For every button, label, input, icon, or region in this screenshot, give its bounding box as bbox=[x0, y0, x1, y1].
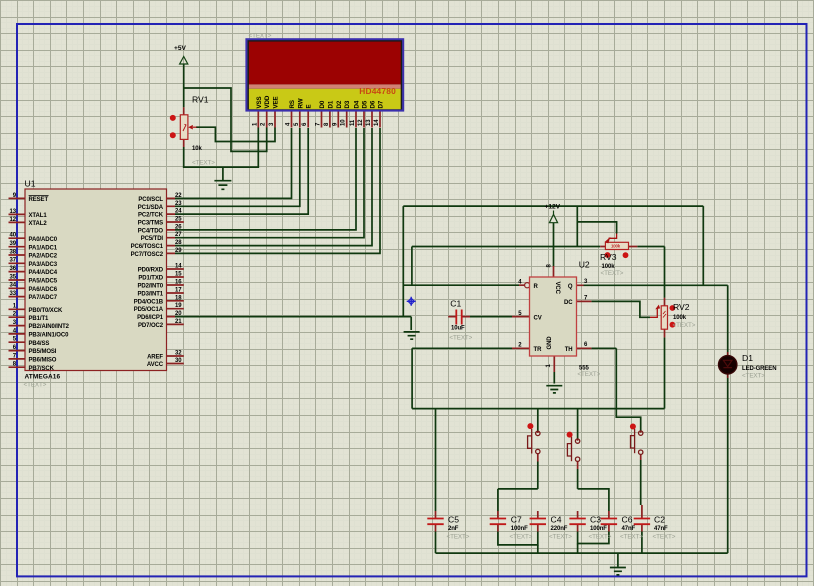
ground 555 bbox=[546, 386, 562, 393]
svg-text:TR: TR bbox=[534, 347, 543, 353]
wire C7 lead down bbox=[497, 489, 499, 511]
svg-text:PB1/T1: PB1/T1 bbox=[29, 316, 50, 322]
svg-text:D6: D6 bbox=[370, 100, 377, 108]
svg-text:<TEXT>: <TEXT> bbox=[589, 534, 612, 541]
U1 left pin names bbox=[29, 196, 70, 372]
svg-text:RS: RS bbox=[289, 100, 296, 108]
cap C6 leads bbox=[608, 511, 610, 532]
U1 right pin stubs wired bbox=[167, 198, 176, 316]
svg-text:PB4/SS: PB4/SS bbox=[29, 341, 50, 347]
svg-text:15: 15 bbox=[175, 272, 182, 278]
cap C3 leads bbox=[577, 511, 579, 532]
capacitor C6 bbox=[601, 515, 644, 541]
ground mid under C1 node bbox=[404, 332, 420, 339]
wire rail drop to button2 bbox=[577, 409, 579, 439]
svg-text:RV3: RV3 bbox=[600, 252, 617, 262]
wire rail drop to RV3 wiper dogleg bbox=[576, 206, 578, 246]
wire C7 C4 parallel top bbox=[498, 488, 538, 490]
svg-text:PD6/ICP1: PD6/ICP1 bbox=[137, 315, 164, 321]
ground near RV1 bbox=[214, 181, 231, 190]
wire bottom rail bbox=[436, 552, 728, 554]
LCD display LM016L HD44780 bbox=[246, 32, 403, 110]
wire C3 C6 parallel bottom bbox=[578, 532, 609, 544]
svg-text:38: 38 bbox=[10, 249, 17, 255]
svg-text:CV: CV bbox=[534, 315, 542, 321]
wire riser R row to RV3 row bbox=[411, 247, 413, 286]
svg-text:GND: GND bbox=[547, 336, 553, 350]
svg-text:100nF: 100nF bbox=[590, 526, 607, 532]
U1 right pin stubs bare bbox=[167, 222, 184, 364]
555 pin stubs bbox=[512, 266, 591, 372]
svg-text:47nF: 47nF bbox=[622, 526, 636, 532]
svg-text:PD3/INT1: PD3/INT1 bbox=[137, 292, 163, 298]
svg-text:PC2/TCK: PC2/TCK bbox=[138, 213, 164, 219]
svg-text:ATMEGA16: ATMEGA16 bbox=[25, 373, 61, 380]
wire RV1 bottom to ground and LCD VSS bbox=[184, 128, 259, 168]
svg-text:39: 39 bbox=[10, 241, 17, 247]
svg-text:47nF: 47nF bbox=[654, 526, 668, 532]
svg-text:PD5/OC1A: PD5/OC1A bbox=[134, 307, 164, 313]
svg-text:U1: U1 bbox=[25, 179, 36, 189]
svg-text:19: 19 bbox=[175, 303, 182, 309]
svg-text:PB0/T0/XCK: PB0/T0/XCK bbox=[29, 308, 63, 314]
svg-text:TH: TH bbox=[565, 347, 573, 353]
svg-text:LED-GREEN: LED-GREEN bbox=[742, 366, 776, 372]
svg-text:PD0/RXD: PD0/RXD bbox=[138, 268, 164, 274]
button 1 bbox=[527, 423, 540, 454]
wire C4 drop to bottom rail bbox=[537, 545, 539, 553]
svg-text:PB5/MOSI: PB5/MOSI bbox=[29, 349, 57, 355]
C1 leads bbox=[448, 316, 470, 318]
svg-text:PA6/ADC6: PA6/ADC6 bbox=[29, 287, 58, 293]
svg-text:PC3/TMS: PC3/TMS bbox=[138, 221, 163, 227]
wire PC0 to LCD RS bbox=[175, 128, 292, 198]
svg-text:10: 10 bbox=[341, 119, 347, 126]
svg-text:<TEXT>: <TEXT> bbox=[653, 534, 676, 541]
svg-text:21: 21 bbox=[175, 319, 182, 325]
LED D1 green bbox=[719, 352, 777, 380]
svg-text:PD1/TXD: PD1/TXD bbox=[138, 276, 163, 282]
power +12V bbox=[545, 204, 561, 223]
svg-text:C5: C5 bbox=[448, 515, 459, 525]
button 2 bbox=[567, 432, 580, 462]
svg-text:PC7/TOSC2: PC7/TOSC2 bbox=[131, 252, 164, 258]
wire R row vertical branch bbox=[402, 206, 404, 317]
wire button2 to C3 C6 top rail bbox=[577, 469, 579, 489]
svg-text:<TEXT>: <TEXT> bbox=[549, 534, 572, 541]
resistor RV1 pot bbox=[170, 95, 215, 167]
wire ground stub near RV1 bbox=[222, 167, 224, 180]
svg-text:C6: C6 bbox=[622, 515, 633, 525]
svg-text:2nF: 2nF bbox=[448, 526, 459, 532]
resistor RV3 pot bbox=[600, 234, 629, 278]
wire C3 C6 parallel top bbox=[578, 489, 609, 511]
cap C2 leads bbox=[641, 505, 643, 532]
RV1 top lead bbox=[183, 107, 185, 115]
cap C5 leads bbox=[435, 511, 437, 532]
wire R row horizontal bbox=[403, 284, 519, 286]
svg-text:XTAL2: XTAL2 bbox=[29, 221, 48, 227]
ground bottom bbox=[610, 568, 626, 575]
svg-text:<TEXT>: <TEXT> bbox=[601, 270, 624, 277]
wire PC6 to LCD D6 bbox=[175, 128, 372, 246]
U1 left pin stubs bbox=[9, 198, 26, 367]
svg-text:24: 24 bbox=[175, 209, 182, 215]
wire +5V branch to LCD VDD bbox=[184, 88, 267, 151]
svg-text:AREF: AREF bbox=[147, 355, 163, 361]
svg-text:34: 34 bbox=[10, 283, 17, 289]
svg-text:+12V: +12V bbox=[545, 204, 561, 211]
svg-text:D1: D1 bbox=[742, 353, 753, 363]
svg-text:<TEXT>: <TEXT> bbox=[447, 534, 470, 541]
svg-text:40: 40 bbox=[10, 233, 17, 239]
wire C1 node to CV green part bbox=[470, 316, 512, 318]
svg-text:D0: D0 bbox=[319, 100, 326, 108]
svg-text:PD4/OC1B: PD4/OC1B bbox=[134, 299, 164, 305]
svg-text:14: 14 bbox=[175, 264, 182, 270]
555 reset bubble bbox=[525, 283, 530, 288]
wire C3 drop to bottom rail bbox=[577, 544, 579, 554]
LCD pin stubs bbox=[258, 110, 380, 127]
wire RV3 row bbox=[412, 246, 600, 248]
wire C2 bottom lead green bbox=[641, 532, 643, 554]
svg-text:PC6/TOSC1: PC6/TOSC1 bbox=[131, 244, 164, 250]
svg-text:C1: C1 bbox=[450, 299, 461, 309]
svg-text:C2: C2 bbox=[654, 515, 665, 525]
svg-text:29: 29 bbox=[175, 248, 182, 254]
svg-text:PD2/INT0: PD2/INT0 bbox=[137, 284, 163, 290]
svg-text:HD44780: HD44780 bbox=[359, 86, 396, 96]
wire rail drop to Q row bbox=[702, 206, 704, 285]
capacitor C1 bbox=[449, 299, 472, 342]
wire PC2 to LCD E bbox=[175, 128, 308, 214]
svg-text:11: 11 bbox=[350, 119, 356, 126]
wire rail drop to button3 bbox=[616, 409, 640, 431]
svg-text:<TEXT>: <TEXT> bbox=[577, 371, 600, 378]
svg-text:30: 30 bbox=[175, 358, 182, 364]
RV1 bottom lead bbox=[183, 139, 185, 147]
power +5V bbox=[174, 45, 188, 64]
svg-text:D3: D3 bbox=[344, 100, 351, 108]
wire LED vertical bbox=[727, 285, 729, 553]
button1 leads bbox=[537, 431, 539, 461]
svg-text:C4: C4 bbox=[551, 515, 562, 525]
svg-text:14: 14 bbox=[374, 119, 380, 126]
wire +5V to RV1 top bbox=[183, 64, 185, 107]
svg-text:D7: D7 bbox=[378, 100, 385, 108]
svg-text:10uF: 10uF bbox=[451, 326, 465, 332]
wire button3 to C2 bbox=[640, 460, 642, 505]
wire 555 gnd stub bbox=[553, 372, 555, 384]
svg-text:35: 35 bbox=[10, 274, 17, 280]
LCD pin numbers bbox=[252, 119, 380, 126]
svg-text:+5V: +5V bbox=[174, 45, 187, 52]
RV3 leads bbox=[600, 246, 637, 248]
capacitor C5 bbox=[427, 515, 469, 541]
capacitor C3 bbox=[569, 515, 611, 541]
op-amp U2 555 timer body bbox=[530, 260, 601, 378]
U2 pin numbers bbox=[518, 264, 588, 368]
svg-text:PC5/TDI: PC5/TDI bbox=[141, 236, 164, 242]
U1 left pin numbers bbox=[10, 193, 17, 368]
svg-text:<TEXT>: <TEXT> bbox=[192, 160, 215, 167]
wire button1 to C4 C7 top rail bbox=[537, 462, 539, 489]
svg-text:PC1/SDA: PC1/SDA bbox=[138, 205, 164, 211]
svg-text:AVCC: AVCC bbox=[147, 362, 164, 368]
svg-text:C7: C7 bbox=[511, 515, 522, 525]
svg-text:PB2/AIN0/INT2: PB2/AIN0/INT2 bbox=[29, 324, 70, 330]
svg-text:RV2: RV2 bbox=[673, 302, 690, 312]
node origin marker bbox=[407, 297, 416, 306]
capacitor C7 bbox=[490, 515, 533, 541]
svg-text:27: 27 bbox=[175, 232, 182, 238]
wire Q row to LED bbox=[584, 284, 728, 286]
svg-text:DC: DC bbox=[564, 300, 573, 306]
RV2 leads bbox=[664, 298, 666, 338]
wire C5 bottom lead green bbox=[435, 532, 437, 554]
svg-text:RESET: RESET bbox=[29, 197, 49, 203]
svg-text:10k: 10k bbox=[192, 146, 202, 152]
wire TR drop to bottom rail bbox=[411, 348, 413, 408]
svg-text:PB6/MISO: PB6/MISO bbox=[29, 358, 57, 364]
svg-text:12: 12 bbox=[10, 217, 17, 223]
button 3 bbox=[630, 424, 643, 455]
svg-text:100k: 100k bbox=[673, 315, 687, 321]
wire +12V arrow to 555 VCC bbox=[553, 223, 555, 266]
svg-text:D4: D4 bbox=[354, 100, 361, 108]
wire PC4 to LCD D4 bbox=[175, 128, 356, 230]
svg-text:26: 26 bbox=[175, 224, 182, 230]
svg-text:17: 17 bbox=[175, 288, 182, 294]
svg-text:22: 22 bbox=[175, 193, 182, 199]
svg-text:VEE: VEE bbox=[273, 96, 280, 108]
svg-text:VSS: VSS bbox=[256, 96, 263, 108]
cap C7 leads bbox=[497, 511, 499, 532]
svg-text:100nF: 100nF bbox=[511, 526, 528, 532]
U2 pin names bbox=[534, 282, 574, 354]
svg-text:C3: C3 bbox=[590, 515, 601, 525]
wire TH drop to rail bbox=[615, 348, 617, 408]
button2 leads bbox=[577, 439, 579, 469]
svg-text:33: 33 bbox=[10, 291, 17, 297]
svg-text:RV1: RV1 bbox=[192, 95, 209, 105]
wire RV2 chain vertical bbox=[664, 247, 666, 298]
svg-text:13: 13 bbox=[366, 119, 372, 126]
svg-text:PA4/ADC4: PA4/ADC4 bbox=[29, 270, 58, 276]
svg-text:28: 28 bbox=[175, 240, 182, 246]
wire top +12V rail bbox=[403, 205, 703, 207]
svg-text:PA5/ADC5: PA5/ADC5 bbox=[29, 279, 58, 285]
wire RV2 bottom to rail bbox=[664, 337, 666, 408]
capacitor C4 bbox=[530, 515, 573, 541]
wire DC row bbox=[591, 301, 650, 317]
wire PD6 row to C1 node bbox=[175, 316, 411, 318]
svg-text:PA7/ADC7: PA7/ADC7 bbox=[29, 295, 58, 301]
svg-text:VCC: VCC bbox=[554, 282, 560, 295]
svg-text:25: 25 bbox=[175, 217, 182, 223]
svg-text:<TEXT>: <TEXT> bbox=[24, 382, 47, 389]
svg-text:PB3/AIN1/OC0: PB3/AIN1/OC0 bbox=[29, 333, 70, 339]
svg-text:220nF: 220nF bbox=[551, 526, 568, 532]
resistor RV2 pot bbox=[650, 302, 696, 329]
svg-text:16: 16 bbox=[175, 280, 182, 286]
svg-text:VDD: VDD bbox=[264, 95, 271, 108]
svg-text:PC0/SCL: PC0/SCL bbox=[138, 197, 163, 203]
svg-text:23: 23 bbox=[175, 201, 182, 207]
svg-text:<TEXT>: <TEXT> bbox=[620, 534, 643, 541]
wire rail drop to button1 bbox=[537, 409, 539, 432]
svg-text:D1: D1 bbox=[327, 100, 334, 108]
wire PC7 to LCD D7 bbox=[175, 128, 380, 253]
wire C7 C4 parallel bottom bbox=[498, 532, 538, 545]
LCD pin names bbox=[256, 95, 385, 108]
button3 leads bbox=[640, 431, 642, 460]
wire bottom ground stub bbox=[617, 553, 619, 567]
svg-text:36: 36 bbox=[10, 266, 17, 272]
svg-text:13: 13 bbox=[10, 209, 17, 215]
svg-text:U2: U2 bbox=[579, 260, 590, 270]
svg-text:E: E bbox=[306, 104, 313, 108]
svg-text:37: 37 bbox=[10, 258, 17, 264]
cap C4 leads bbox=[537, 511, 539, 532]
svg-text:D5: D5 bbox=[362, 100, 369, 108]
wire mid bottom rail bbox=[412, 408, 664, 410]
wire rail drop to C5 bbox=[435, 409, 437, 511]
svg-text:PA0/ADC0: PA0/ADC0 bbox=[29, 237, 58, 243]
wire RV3 right to RV2 chain bbox=[637, 246, 664, 248]
wire node to mid ground bbox=[410, 317, 412, 330]
svg-text:32: 32 bbox=[175, 351, 182, 357]
U1 right pin numbers bbox=[175, 193, 182, 364]
svg-text:<TEXT>: <TEXT> bbox=[742, 373, 765, 380]
U1 right pin names bbox=[131, 197, 164, 368]
wire RV1 wiper to LCD VEE bbox=[196, 127, 275, 141]
capacitor C2 bbox=[634, 515, 676, 541]
svg-text:PA2/ADC2: PA2/ADC2 bbox=[29, 254, 58, 260]
svg-text:PC4/TDO: PC4/TDO bbox=[138, 228, 164, 234]
svg-text:18: 18 bbox=[175, 295, 182, 301]
svg-text:PA1/ADC1: PA1/ADC1 bbox=[29, 245, 58, 251]
wire PC1 to LCD RW bbox=[175, 128, 300, 206]
svg-text:PB7/SCK: PB7/SCK bbox=[29, 366, 55, 372]
svg-text:PA3/ADC3: PA3/ADC3 bbox=[29, 262, 58, 268]
svg-text:XTAL1: XTAL1 bbox=[29, 213, 48, 219]
svg-text:<TEXT>: <TEXT> bbox=[510, 534, 533, 541]
svg-text:100k: 100k bbox=[611, 244, 621, 249]
wire TR row bbox=[412, 347, 512, 349]
svg-text:20: 20 bbox=[175, 311, 182, 317]
svg-text:Q: Q bbox=[568, 284, 573, 290]
svg-text:D2: D2 bbox=[336, 100, 343, 108]
svg-text:12: 12 bbox=[358, 119, 364, 126]
svg-text:<TEXT>: <TEXT> bbox=[673, 322, 696, 329]
wire TH row bbox=[591, 347, 616, 349]
wire PC5 to LCD D5 bbox=[175, 128, 364, 238]
svg-text:RW: RW bbox=[297, 98, 304, 108]
svg-text:<TEXT>: <TEXT> bbox=[449, 335, 472, 342]
wire dogleg to RV3 wiper bbox=[577, 222, 616, 234]
svg-text:PD7/OC2: PD7/OC2 bbox=[138, 323, 164, 329]
op-amp U1 ATmega16 body bbox=[24, 179, 167, 389]
